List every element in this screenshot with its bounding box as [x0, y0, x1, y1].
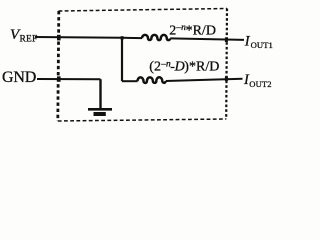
svg-text:*R/D: *R/D	[186, 23, 216, 38]
svg-text:OUT2: OUT2	[249, 79, 271, 89]
svg-text:OUT1: OUT1	[251, 40, 273, 50]
svg-text:*R/D: *R/D	[189, 60, 219, 75]
svg-text:2: 2	[169, 23, 176, 38]
svg-text:REF: REF	[20, 35, 38, 45]
svg-text:D: D	[174, 60, 185, 75]
svg-text:–n: –n	[175, 23, 186, 33]
svg-text:(2: (2	[149, 60, 161, 75]
svg-text:GND: GND	[2, 69, 36, 86]
